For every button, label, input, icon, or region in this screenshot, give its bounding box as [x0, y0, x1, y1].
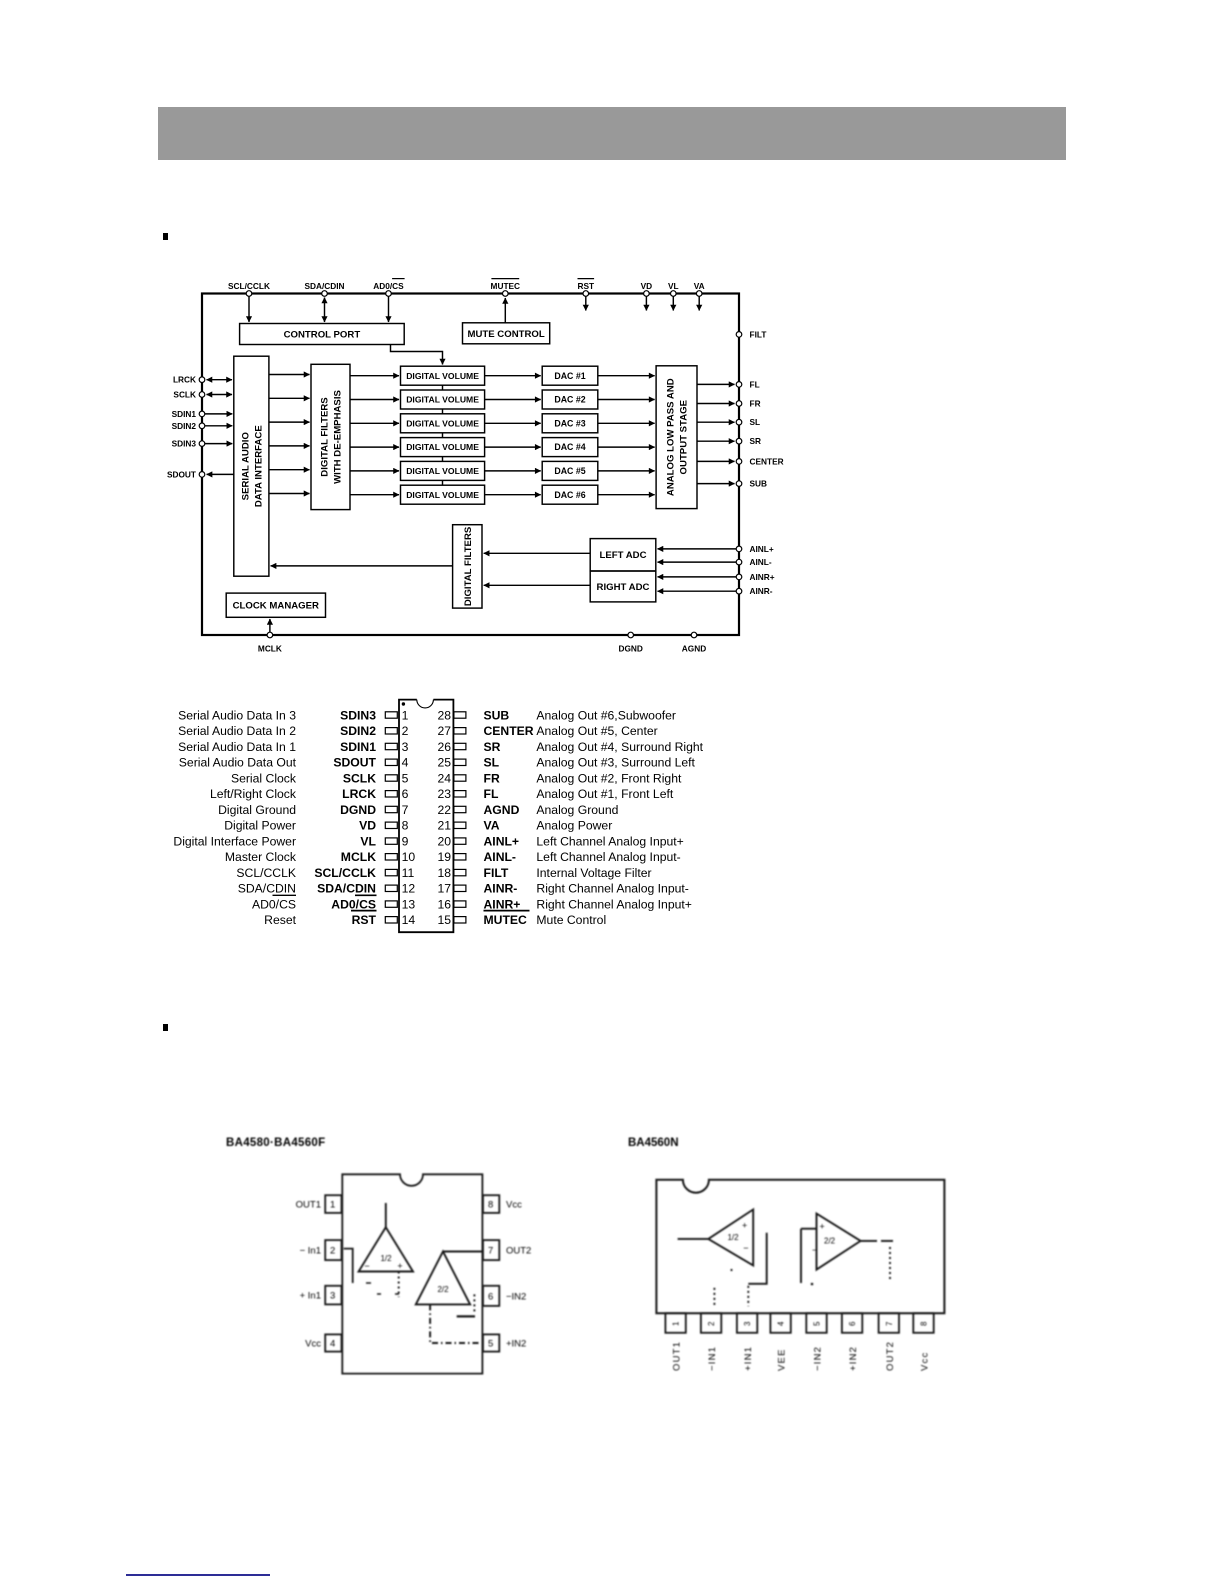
wire volume to dac row 5	[485, 470, 541, 472]
svg-text:CENTER: CENTER	[484, 724, 534, 738]
pin 3 (+IN1) SIP	[737, 1313, 757, 1371]
wire serial interface to filters row 3	[269, 421, 310, 423]
svg-text:VA: VA	[694, 281, 705, 291]
svg-text:MUTEC: MUTEC	[491, 281, 521, 291]
svg-text:14: 14	[402, 913, 416, 927]
svg-text:23: 23	[437, 787, 451, 801]
block DIGITAL FILTERS (ADC)	[453, 525, 482, 608]
wire dac to output stage row 1	[598, 375, 655, 377]
wire digital filters to serial interface	[271, 565, 453, 567]
op-amp A1	[359, 1203, 413, 1272]
svg-text:LRCK: LRCK	[342, 787, 376, 801]
wire volume to dac row 1	[485, 375, 541, 377]
svg-text:MCLK: MCLK	[341, 850, 376, 864]
svg-text:BA4580·BA4560F: BA4580·BA4560F	[226, 1137, 325, 1149]
wire left adc to digital filters	[484, 552, 591, 554]
svg-text:− In1: − In1	[300, 1246, 321, 1257]
svg-text:Digital Ground: Digital Ground	[218, 803, 296, 817]
svg-text:DAC #4: DAC #4	[554, 442, 585, 452]
wire serial interface to filters row 1	[269, 374, 310, 376]
package BA4560N SIP body	[656, 1180, 944, 1314]
svg-text:VA: VA	[484, 819, 500, 833]
pin 24 row	[437, 771, 682, 785]
pin RST (top)	[577, 279, 594, 297]
svg-text:BA4560N: BA4560N	[628, 1137, 679, 1149]
svg-text:+IN1: +IN1	[743, 1346, 754, 1371]
pin 19 row	[437, 850, 680, 864]
svg-text:AINL+: AINL+	[484, 834, 520, 848]
svg-text:DAC #5: DAC #5	[554, 466, 585, 476]
svg-text:Analog Out #3, Surround Left: Analog Out #3, Surround Left	[536, 756, 695, 770]
block RIGHT ADC	[590, 571, 656, 602]
pin AD0/CS (top)	[373, 279, 404, 297]
svg-text:−: −	[364, 1261, 369, 1271]
pin 8 (Vcc) SIP	[913, 1313, 933, 1371]
pin 6 (+IN2) SIP	[842, 1313, 862, 1371]
pin DGND	[618, 632, 642, 653]
svg-text:AD0/CS: AD0/CS	[252, 897, 296, 911]
wire output stage to FR	[697, 403, 735, 405]
wire filters to volume row 1	[350, 375, 399, 377]
svg-text:SDIN1: SDIN1	[172, 409, 197, 419]
svg-text:24: 24	[437, 771, 451, 785]
svg-text:RST: RST	[352, 913, 377, 927]
pin 22 row	[437, 803, 618, 817]
svg-text:SR: SR	[484, 740, 501, 754]
svg-text:AINL-: AINL-	[484, 850, 517, 864]
svg-text:Digital Power: Digital Power	[224, 819, 296, 833]
svg-text:Analog Power: Analog Power	[536, 819, 612, 833]
svg-text:DAC #3: DAC #3	[554, 418, 585, 428]
svg-text:SL: SL	[750, 417, 761, 427]
wire thick dash under A2	[457, 1315, 475, 1317]
pin 14 row	[264, 911, 415, 928]
wire stub from top pin x=673.3	[672, 297, 674, 311]
svg-text:CENTER: CENTER	[750, 456, 784, 466]
pin 5 row	[231, 771, 409, 785]
svg-text:4: 4	[777, 1321, 786, 1326]
svg-text:AGND: AGND	[682, 644, 706, 654]
pin 2 row	[178, 724, 408, 738]
pin 4 (VEE) SIP	[770, 1313, 790, 1371]
svg-text:Vcc: Vcc	[305, 1339, 321, 1350]
svg-text:Serial Clock: Serial Clock	[231, 771, 297, 785]
block LEFT ADC	[590, 539, 656, 571]
wire AINR+ to adc	[658, 576, 737, 578]
wire SCL/CCLK to control port	[248, 297, 250, 323]
pin 5 (+IN2)	[483, 1334, 526, 1351]
block DIGITAL FILTERS WITH DE-EMPHASIS	[311, 364, 350, 509]
svg-text:4: 4	[402, 756, 409, 770]
wire filters to volume row 4	[350, 446, 399, 448]
pin MCLK	[258, 632, 282, 653]
wire AINL- to adc	[658, 561, 737, 563]
pin 2 (− In1)	[300, 1240, 342, 1260]
svg-text:+: +	[397, 1261, 402, 1271]
svg-text:Vcc: Vcc	[506, 1200, 522, 1211]
svg-text:DIGITAL VOLUME: DIGITAL VOLUME	[406, 371, 479, 381]
svg-text:5: 5	[488, 1339, 493, 1350]
wire AD0/CS to control port	[388, 297, 390, 323]
svg-text:Analog Out #6,Subwoofer: Analog Out #6,Subwoofer	[536, 708, 676, 722]
svg-text:AINL+: AINL+	[750, 544, 774, 554]
wire volume to dac row 2	[485, 399, 541, 401]
wire dotted under B1 b	[747, 1286, 749, 1306]
svg-text:8: 8	[402, 819, 409, 833]
svg-text:MUTE CONTROL: MUTE CONTROL	[467, 329, 544, 340]
svg-text:DATA INTERFACE: DATA INTERFACE	[253, 425, 264, 507]
svg-text:9: 9	[402, 834, 409, 848]
pin SDOUT	[167, 469, 205, 479]
svg-text:SCL/CCLK: SCL/CCLK	[314, 866, 376, 880]
svg-text:SDIN3: SDIN3	[172, 439, 197, 449]
svg-text:Left Channel Analog Input-: Left Channel Analog Input-	[536, 850, 680, 864]
svg-text:FL: FL	[750, 379, 760, 389]
svg-text:2: 2	[707, 1321, 716, 1326]
wire dac to output stage row 5	[598, 470, 655, 472]
svg-text:RIGHT ADC: RIGHT ADC	[597, 582, 650, 593]
block DIGITAL VOLUME 6	[401, 485, 485, 504]
pin 7 row	[218, 803, 409, 817]
pin 8 (Vcc)	[483, 1195, 522, 1213]
svg-text:CONTROL PORT: CONTROL PORT	[284, 330, 361, 341]
svg-text:−: −	[812, 1245, 817, 1255]
svg-text:SDIN3: SDIN3	[340, 708, 376, 722]
svg-text:OUTPUT STAGE: OUTPUT STAGE	[679, 399, 690, 474]
svg-text:MUTEC: MUTEC	[484, 913, 528, 927]
svg-text:DIGITAL VOLUME: DIGITAL VOLUME	[406, 418, 479, 428]
block DAC #5	[542, 461, 598, 480]
pin 1 row	[178, 708, 408, 722]
svg-text:2: 2	[402, 724, 409, 738]
wire B2 output	[861, 1240, 893, 1242]
svg-text:SCL/CCLK: SCL/CCLK	[228, 281, 270, 291]
bullet 1	[163, 233, 168, 240]
svg-text:RST: RST	[577, 281, 594, 291]
svg-text:DIGITAL VOLUME: DIGITAL VOLUME	[406, 442, 479, 452]
svg-text:1/2: 1/2	[380, 1254, 392, 1263]
svg-text:1: 1	[672, 1321, 681, 1326]
svg-text:AGND: AGND	[484, 803, 520, 817]
block DIGITAL VOLUME 5	[401, 461, 485, 480]
svg-text:Analog Out #2, Front Right: Analog Out #2, Front Right	[536, 771, 682, 785]
svg-text:Right Channel Analog Input-: Right Channel Analog Input-	[536, 882, 688, 896]
footer rule	[126, 1574, 270, 1576]
junction dot B1	[730, 1269, 732, 1271]
wire dotted right of A2	[473, 1294, 475, 1311]
svg-text:CLOCK MANAGER: CLOCK MANAGER	[233, 601, 319, 612]
svg-text:+: +	[820, 1221, 825, 1231]
wire LRCK bidir	[207, 379, 233, 381]
svg-text:FILT: FILT	[750, 329, 767, 339]
wire hook right of B1	[748, 1233, 766, 1284]
block DAC #2	[542, 390, 598, 409]
svg-text:7: 7	[402, 803, 409, 817]
svg-text:DGND: DGND	[618, 644, 642, 654]
svg-text:4: 4	[330, 1339, 335, 1350]
svg-text:1: 1	[330, 1200, 335, 1211]
svg-text:AINR+: AINR+	[750, 572, 775, 582]
svg-text:SDIN2: SDIN2	[340, 724, 376, 738]
wire stub from top pin x=699.2	[698, 297, 700, 311]
svg-text:Analog Out #1, Front Left: Analog Out #1, Front Left	[536, 787, 673, 801]
pin 17 row	[437, 882, 688, 896]
pin 20 row	[437, 834, 683, 848]
header banner	[158, 107, 1066, 160]
svg-text:OUT1: OUT1	[296, 1200, 321, 1211]
svg-text:SDOUT: SDOUT	[167, 469, 196, 479]
svg-text:DIGITAL VOLUME: DIGITAL VOLUME	[406, 490, 479, 500]
pin MUTEC (top)	[491, 279, 521, 297]
svg-text:2: 2	[330, 1246, 335, 1257]
svg-text:SDIN1: SDIN1	[340, 740, 376, 754]
block ANALOG LOW PASS AND OUTPUT STAGE	[656, 366, 697, 509]
junction dot B2	[811, 1283, 814, 1286]
pin SDIN2	[172, 421, 205, 431]
svg-text:28: 28	[437, 708, 451, 722]
svg-text:6: 6	[488, 1291, 493, 1302]
pin 18 row	[437, 866, 651, 880]
svg-text:10: 10	[402, 850, 416, 864]
wire volume to dac row 6	[485, 494, 541, 496]
IC package body	[399, 700, 453, 933]
svg-text:13: 13	[402, 897, 416, 911]
pin 26 row	[437, 740, 703, 754]
pin VL (top)	[668, 281, 679, 296]
svg-text:15: 15	[437, 913, 451, 927]
svg-text:−IN2: −IN2	[813, 1346, 824, 1371]
wire stub from top pin x=646.4	[645, 297, 647, 311]
svg-text:Internal Voltage Filter: Internal Voltage Filter	[536, 866, 651, 880]
svg-text:AINL-: AINL-	[750, 557, 772, 567]
svg-text:18: 18	[437, 866, 451, 880]
svg-text:Mute Control: Mute Control	[536, 913, 606, 927]
block DAC #6	[542, 485, 598, 504]
pin 10 row	[225, 850, 415, 864]
wire SDOUT out	[207, 473, 234, 475]
svg-text:+: +	[742, 1221, 747, 1231]
svg-text:MCLK: MCLK	[258, 644, 282, 654]
svg-text:VEE: VEE	[777, 1348, 788, 1371]
svg-text:SCL/CCLK: SCL/CCLK	[236, 866, 296, 880]
pin 7 (OUT2) SIP	[879, 1313, 899, 1371]
svg-text:SUB: SUB	[750, 479, 768, 489]
op-amp A2	[416, 1252, 482, 1305]
pin AINR+	[736, 572, 775, 582]
wire volume chain 4	[442, 457, 444, 462]
pin 9 row	[173, 834, 408, 848]
svg-text:−IN1: −IN1	[707, 1346, 718, 1371]
svg-text:−IN2: −IN2	[506, 1291, 526, 1302]
svg-text:SL: SL	[484, 756, 500, 770]
pin 2 (−IN1) SIP	[701, 1313, 721, 1371]
svg-text:VL: VL	[360, 834, 376, 848]
svg-text:Right Channel Analog Input+: Right Channel Analog Input+	[536, 897, 692, 911]
svg-text:11: 11	[402, 866, 415, 880]
svg-text:SDA/CDIN: SDA/CDIN	[238, 882, 296, 896]
svg-text:OUT2: OUT2	[506, 1246, 531, 1257]
svg-text:2/2: 2/2	[437, 1285, 449, 1294]
wire output stage to CENTER	[697, 460, 735, 462]
svg-text:SDA/CDIN: SDA/CDIN	[317, 882, 376, 896]
pin 11 row	[236, 866, 414, 880]
pin 5 (−IN2) SIP	[806, 1313, 826, 1371]
svg-text:7: 7	[488, 1246, 493, 1257]
svg-text:Master Clock: Master Clock	[225, 850, 297, 864]
svg-text:Serial Audio Data In 3: Serial Audio Data In 3	[178, 708, 296, 722]
block DIGITAL VOLUME 4	[401, 438, 485, 457]
svg-text:AINR-: AINR-	[750, 586, 773, 596]
wire right adc to digital filters	[484, 584, 591, 586]
svg-text:27: 27	[437, 724, 451, 738]
block DAC #3	[542, 414, 598, 433]
pin AGND	[682, 632, 706, 653]
pin SL	[736, 417, 760, 427]
pin 27 row	[437, 724, 657, 738]
wire output stage to SR	[697, 440, 735, 442]
svg-text:1/2: 1/2	[727, 1233, 739, 1242]
svg-text:Analog Out #4, Surround Right: Analog Out #4, Surround Right	[536, 740, 703, 754]
svg-text:12: 12	[402, 882, 416, 896]
wire volume chain 2	[442, 409, 444, 414]
svg-text:+ In1: + In1	[300, 1291, 321, 1302]
svg-text:−: −	[743, 1243, 748, 1253]
svg-text:WITH DE-EMPHASIS: WITH DE-EMPHASIS	[333, 389, 344, 483]
wire dac to output stage row 6	[598, 494, 655, 496]
svg-text:Reset: Reset	[264, 913, 296, 927]
svg-text:19: 19	[437, 850, 451, 864]
svg-text:LRCK: LRCK	[173, 375, 196, 385]
svg-text:OUT2: OUT2	[885, 1341, 896, 1371]
pin 4 (Vcc)	[305, 1334, 341, 1351]
svg-text:Digital Interface Power: Digital Interface Power	[173, 834, 296, 848]
svg-text:DIGITAL FILTERS: DIGITAL FILTERS	[463, 526, 474, 606]
block DAC #1	[542, 366, 598, 385]
svg-text:8: 8	[920, 1321, 929, 1326]
pin FL	[736, 379, 759, 389]
block SERIAL AUDIO DATA INTERFACE	[234, 356, 269, 576]
pin SUB	[736, 479, 767, 489]
svg-text:5: 5	[813, 1321, 822, 1326]
pin CENTER	[736, 456, 783, 466]
svg-text:AD0/CS: AD0/CS	[331, 897, 376, 911]
svg-text:DIGITAL VOLUME: DIGITAL VOLUME	[406, 466, 479, 476]
pin 1 (OUT1)	[296, 1195, 342, 1213]
block CLOCK MANAGER	[226, 593, 325, 617]
block DIGITAL VOLUME 3	[401, 414, 485, 433]
svg-text:5: 5	[402, 771, 409, 785]
pin1 index dot	[402, 702, 405, 705]
pin SDIN3	[172, 439, 205, 449]
svg-text:VD: VD	[359, 819, 376, 833]
svg-text:Serial Audio Data In 2: Serial Audio Data In 2	[178, 724, 296, 738]
pin 16 row	[437, 897, 691, 911]
svg-text:21: 21	[437, 819, 451, 833]
wire volume chain 3	[442, 433, 444, 438]
wire dotted under B1 a	[713, 1288, 715, 1306]
svg-text:8: 8	[488, 1200, 493, 1211]
wire output stage to FL	[697, 383, 735, 385]
svg-text:OUT1: OUT1	[672, 1341, 683, 1371]
svg-text:VL: VL	[668, 281, 679, 291]
svg-text:SR: SR	[750, 436, 762, 446]
svg-text:SCLK: SCLK	[343, 771, 376, 785]
svg-text:25: 25	[437, 756, 451, 770]
svg-text:20: 20	[437, 834, 451, 848]
pin 3 row	[178, 740, 408, 754]
svg-text:FL: FL	[484, 787, 499, 801]
svg-text:3: 3	[402, 740, 409, 754]
pin SR	[736, 436, 761, 446]
svg-text:DIGITAL VOLUME: DIGITAL VOLUME	[406, 395, 479, 405]
pin 3 (+ In1)	[300, 1286, 342, 1305]
wire volume chain 5	[442, 480, 444, 485]
wire MCLK to clock manager	[269, 619, 271, 632]
pin FILT	[736, 329, 766, 339]
pin SCL/CCLK (top)	[228, 281, 270, 296]
pin SDIN1	[172, 409, 205, 419]
svg-text:+IN2: +IN2	[506, 1339, 526, 1350]
block DIGITAL VOLUME 2	[401, 390, 485, 409]
wire output stage to SUB	[697, 483, 735, 485]
svg-text:Analog Out #5, Center: Analog Out #5, Center	[536, 724, 657, 738]
wire mute control to MUTEC	[504, 298, 506, 323]
svg-text:AINR+: AINR+	[484, 897, 521, 911]
svg-text:7: 7	[885, 1321, 894, 1326]
pin AINL+	[736, 544, 774, 554]
wire SDIN3 in	[205, 443, 232, 445]
pin SDA/CDIN (top)	[304, 281, 344, 296]
svg-text:DAC #1: DAC #1	[554, 371, 585, 381]
pin 15 row	[437, 911, 606, 928]
pin 13 row	[252, 895, 415, 911]
pin 8 row	[224, 819, 408, 833]
block MUTE CONTROL	[463, 323, 550, 344]
svg-text:FR: FR	[750, 399, 761, 409]
svg-text:DAC #2: DAC #2	[554, 395, 585, 405]
svg-text:FILT: FILT	[484, 866, 509, 880]
wire SCLK bidir	[207, 394, 233, 396]
block DIGITAL VOLUME 1	[401, 366, 485, 385]
pin 25 row	[437, 756, 695, 770]
pin 23 row	[437, 787, 673, 801]
op-amp B2	[812, 1214, 861, 1270]
pin 7 (OUT2)	[483, 1240, 531, 1260]
svg-text:3: 3	[330, 1291, 335, 1302]
svg-text:22: 22	[437, 803, 451, 817]
svg-text:ANALOG LOW PASS AND: ANALOG LOW PASS AND	[666, 378, 677, 496]
svg-text:FR: FR	[484, 771, 500, 785]
svg-text:1: 1	[402, 708, 409, 722]
pin AINR-	[736, 586, 773, 596]
block DAC #4	[542, 438, 598, 457]
wire volume chain 1	[442, 385, 444, 390]
pin VD (top)	[641, 281, 653, 296]
svg-text:DAC #6: DAC #6	[554, 490, 585, 500]
wire dac to output stage row 2	[598, 399, 655, 401]
wire serial interface to filters row 4	[269, 445, 310, 447]
wire dashed under A1	[398, 1272, 400, 1298]
pin 21 row	[437, 819, 612, 833]
wire output stage to SL	[697, 421, 735, 423]
wire SDIN2 in	[205, 425, 232, 427]
svg-text:SDIN2: SDIN2	[172, 421, 197, 431]
pin VA (top)	[694, 281, 705, 296]
wire SDA/CDIN to control port (bidir)	[324, 298, 326, 323]
svg-text:2/2: 2/2	[824, 1236, 836, 1245]
svg-text:Serial Audio Data Out: Serial Audio Data Out	[179, 756, 297, 770]
svg-text:SERIAL AUDIO: SERIAL AUDIO	[240, 432, 251, 501]
